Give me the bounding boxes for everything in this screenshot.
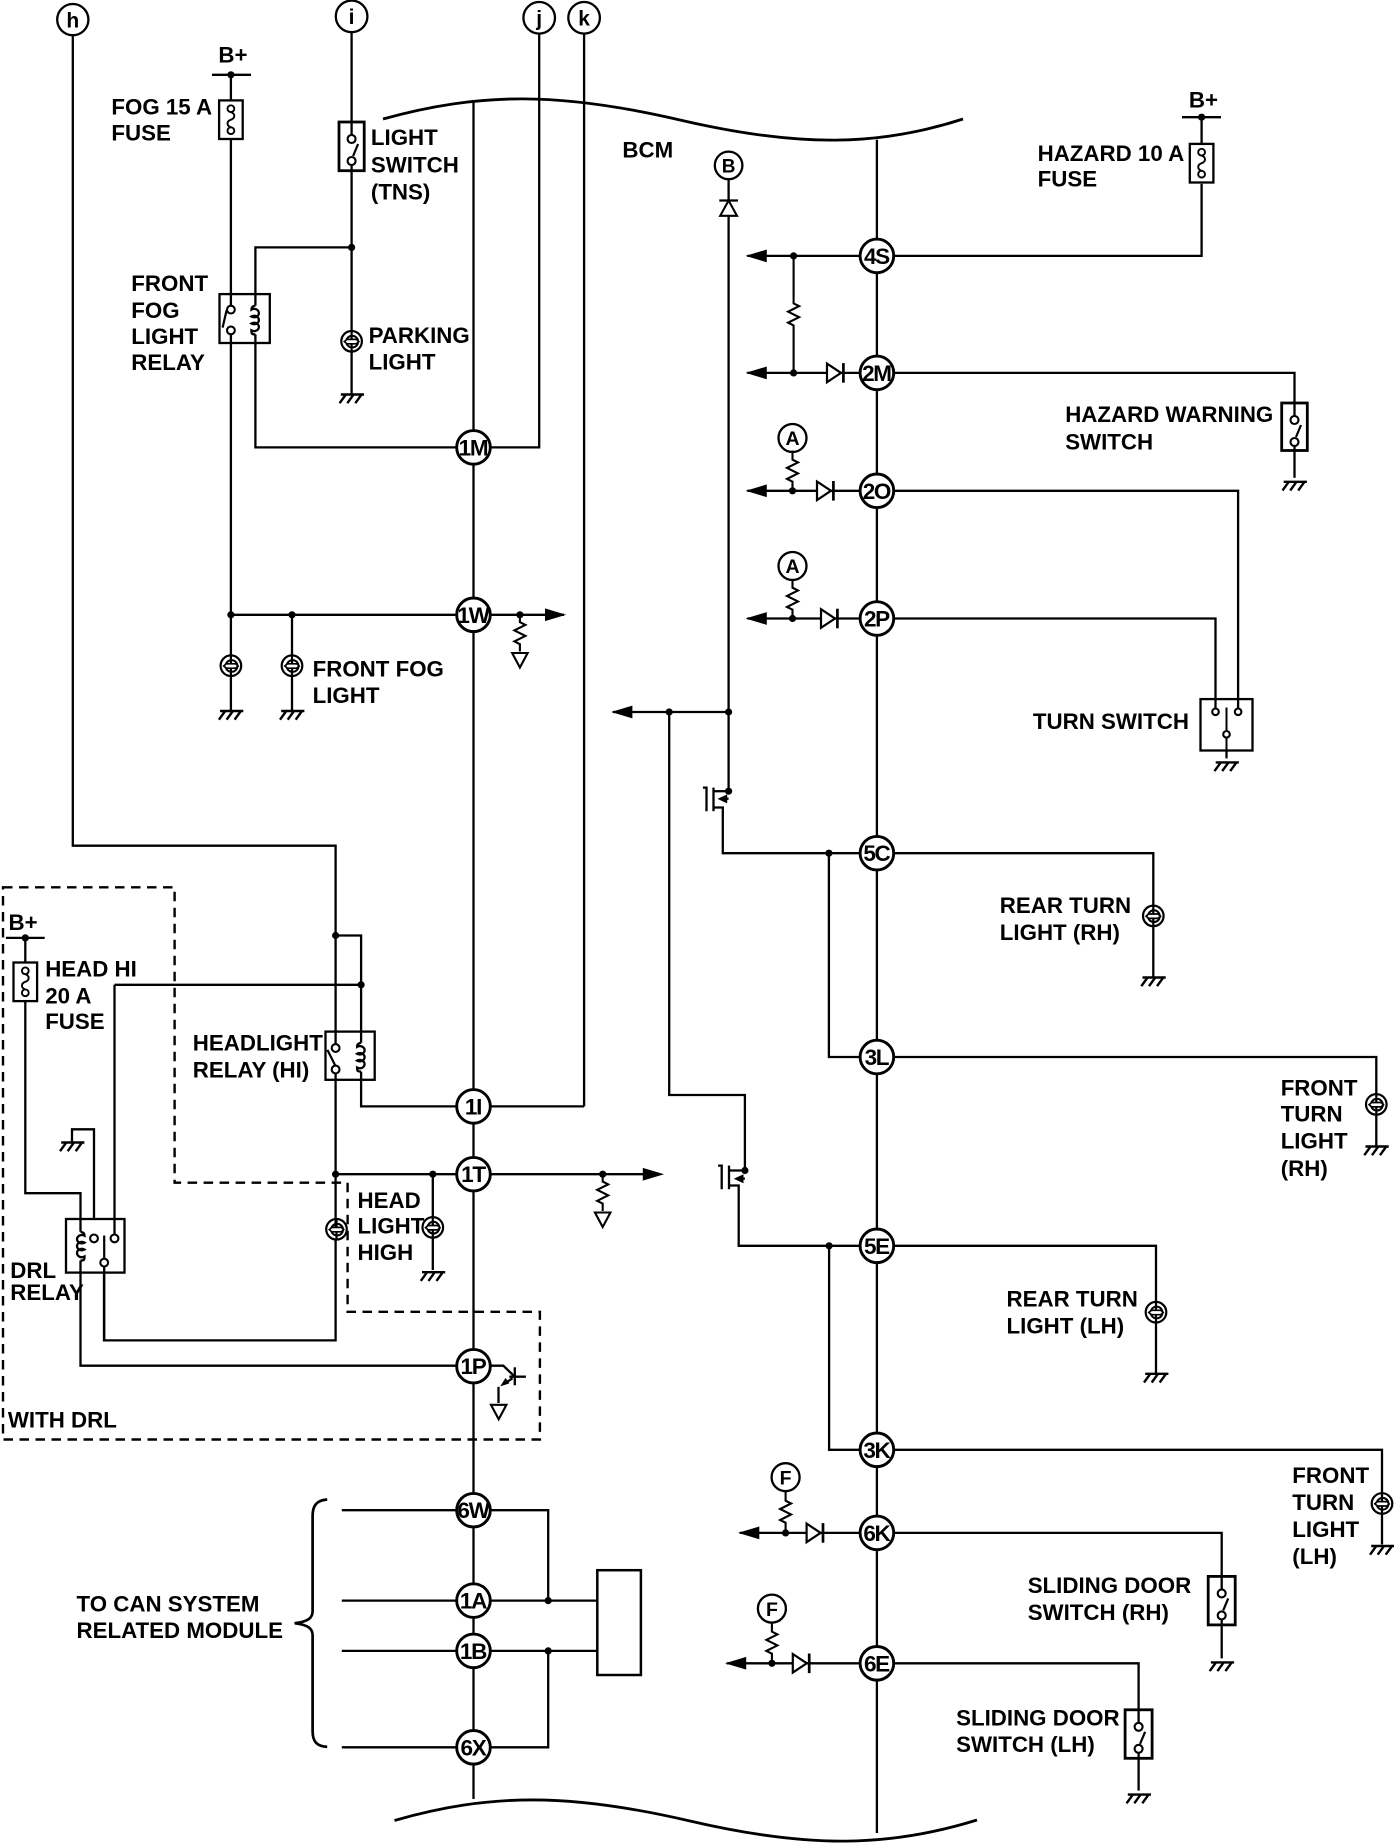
svg-text:RELATED MODULE: RELATED MODULE (77, 1618, 283, 1643)
svg-text:FRONT: FRONT (1292, 1463, 1369, 1488)
svg-text:2M: 2M (862, 361, 891, 386)
svg-text:FRONT FOG: FRONT FOG (313, 656, 444, 681)
svg-text:HEADLIGHT: HEADLIGHT (193, 1031, 323, 1056)
svg-text:(RH): (RH) (1281, 1156, 1328, 1181)
svg-text:FUSE: FUSE (111, 120, 170, 145)
svg-text:LIGHT (LH): LIGHT (LH) (1007, 1314, 1125, 1339)
svg-text:TURN: TURN (1292, 1490, 1354, 1515)
svg-text:B+: B+ (218, 42, 247, 67)
svg-text:TO CAN SYSTEM: TO CAN SYSTEM (77, 1592, 260, 1617)
svg-text:1M: 1M (459, 435, 488, 460)
svg-text:k: k (578, 8, 590, 31)
svg-text:SLIDING DOOR: SLIDING DOOR (1028, 1573, 1192, 1598)
svg-text:1W: 1W (457, 603, 490, 628)
svg-text:HEAD: HEAD (358, 1188, 421, 1213)
svg-text:LIGHT: LIGHT (313, 683, 380, 708)
svg-text:6W: 6W (457, 1498, 490, 1523)
svg-text:B+: B+ (1189, 87, 1218, 112)
svg-text:20 A: 20 A (45, 983, 91, 1008)
svg-text:RELAY: RELAY (131, 350, 205, 375)
svg-text:SWITCH: SWITCH (1065, 430, 1153, 455)
svg-text:(LH): (LH) (1292, 1544, 1337, 1569)
svg-text:FRONT: FRONT (1281, 1075, 1358, 1100)
svg-text:F: F (766, 1599, 778, 1621)
svg-text:LIGHT: LIGHT (358, 1214, 425, 1239)
svg-text:LIGHT: LIGHT (1281, 1128, 1348, 1153)
svg-text:3K: 3K (863, 1438, 891, 1463)
svg-text:1P: 1P (461, 1354, 487, 1379)
svg-text:2O: 2O (863, 479, 891, 504)
svg-text:RELAY (HI): RELAY (HI) (193, 1058, 309, 1083)
svg-text:FOG: FOG (131, 298, 179, 323)
svg-text:1B: 1B (460, 1639, 487, 1664)
svg-text:h: h (66, 9, 79, 32)
svg-text:FOG 15 A: FOG 15 A (111, 95, 212, 120)
svg-text:B+: B+ (9, 910, 38, 935)
svg-text:A: A (785, 428, 799, 450)
svg-text:LIGHT: LIGHT (131, 324, 198, 349)
svg-text:HAZARD WARNING: HAZARD WARNING (1065, 402, 1273, 427)
svg-text:LIGHT: LIGHT (369, 350, 436, 375)
svg-text:HEAD HI: HEAD HI (45, 957, 137, 982)
svg-text:i: i (349, 6, 355, 29)
svg-text:1I: 1I (465, 1094, 481, 1119)
svg-text:SWITCH (LH): SWITCH (LH) (956, 1732, 1095, 1757)
svg-text:REAR TURN: REAR TURN (1000, 893, 1131, 918)
svg-text:1T: 1T (461, 1162, 486, 1187)
svg-text:FRONT: FRONT (131, 271, 208, 296)
svg-text:6X: 6X (461, 1735, 487, 1760)
svg-text:6E: 6E (864, 1651, 890, 1676)
svg-text:1A: 1A (460, 1589, 487, 1614)
svg-text:j: j (535, 8, 542, 31)
svg-text:WITH DRL: WITH DRL (8, 1407, 117, 1432)
svg-text:HAZARD 10 A: HAZARD 10 A (1038, 141, 1185, 166)
svg-text:TURN: TURN (1281, 1102, 1343, 1127)
svg-text:B: B (722, 156, 736, 177)
svg-text:PARKING: PARKING (369, 323, 470, 348)
svg-text:SWITCH (RH): SWITCH (RH) (1028, 1600, 1169, 1625)
svg-text:5C: 5C (863, 841, 890, 866)
svg-text:LIGHT (RH): LIGHT (RH) (1000, 920, 1120, 945)
svg-text:(TNS): (TNS) (371, 180, 430, 205)
svg-text:6K: 6K (863, 1521, 891, 1546)
svg-text:3L: 3L (865, 1045, 890, 1070)
svg-text:LIGHT: LIGHT (371, 125, 438, 150)
svg-text:F: F (780, 1467, 792, 1489)
svg-text:5E: 5E (864, 1234, 890, 1259)
svg-text:2P: 2P (864, 607, 890, 632)
svg-text:HIGH: HIGH (358, 1240, 414, 1265)
svg-text:TURN SWITCH: TURN SWITCH (1033, 709, 1189, 734)
svg-text:SLIDING DOOR: SLIDING DOOR (956, 1705, 1120, 1730)
svg-text:FUSE: FUSE (1038, 166, 1097, 191)
svg-text:RELAY: RELAY (10, 1280, 84, 1305)
svg-text:FUSE: FUSE (45, 1009, 104, 1034)
svg-text:REAR TURN: REAR TURN (1007, 1286, 1138, 1311)
svg-text:4S: 4S (864, 244, 890, 269)
svg-text:SWITCH: SWITCH (371, 152, 459, 177)
svg-text:A: A (785, 556, 799, 578)
svg-text:LIGHT: LIGHT (1292, 1517, 1359, 1542)
svg-text:BCM: BCM (622, 138, 673, 163)
